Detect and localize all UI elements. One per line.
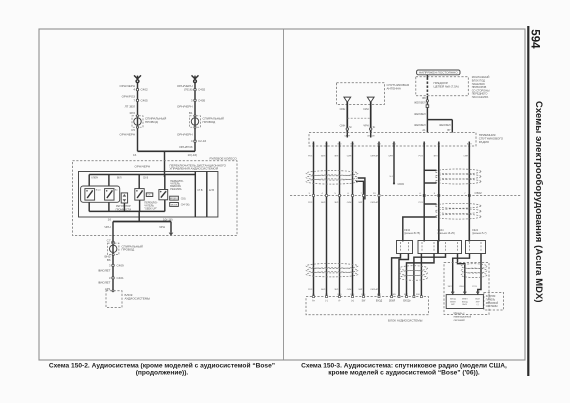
svg-text:С401: С401 bbox=[117, 276, 125, 280]
svg-text:В1: В1 bbox=[189, 111, 193, 115]
svg-text:СИН: СИН bbox=[347, 289, 352, 291]
svg-text:ПАНЕЛЬ: ПАНЕЛЬ bbox=[486, 298, 496, 301]
svg-text:СИСТЕМЫ: СИСТЕМЫ bbox=[486, 306, 498, 308]
svg-text:ФИОЛЕТ: ФИОЛЕТ bbox=[98, 269, 111, 273]
svg-text:Вниз: Вниз bbox=[96, 189, 101, 191]
svg-text:СИН: СИН bbox=[459, 286, 464, 288]
svg-text:ОРН/ЧЕРН: ОРН/ЧЕРН bbox=[177, 104, 193, 108]
svg-text:С502: С502 bbox=[475, 191, 483, 195]
svg-text:(7616): (7616) bbox=[184, 88, 193, 92]
svg-text:9с: 9с bbox=[373, 126, 376, 129]
svg-text:СИН: СИН bbox=[347, 202, 352, 204]
svg-text:ЧРН: ЧРН bbox=[363, 124, 368, 128]
svg-text:В8: В8 bbox=[422, 96, 426, 100]
svg-text:7: 7 bbox=[133, 98, 135, 102]
svg-text:В7: В7 bbox=[447, 128, 451, 132]
svg-text:ВЫХ: ВЫХ bbox=[475, 299, 480, 301]
svg-text:4: 4 bbox=[133, 88, 135, 92]
svg-text:6: 6 bbox=[348, 193, 350, 195]
svg-text:ЛТ ЗЕЛ: ЛТ ЗЕЛ bbox=[125, 104, 135, 108]
svg-text:БЕЛ: БЕЛ bbox=[321, 202, 326, 204]
svg-text:3: 3 bbox=[309, 193, 311, 195]
svg-text:ЗЕЛ: ЗЕЛ bbox=[433, 156, 438, 158]
svg-text:ВХОД: ВХОД bbox=[462, 301, 468, 303]
svg-text:С402: С402 bbox=[141, 88, 149, 92]
svg-text:5с: 5с bbox=[349, 126, 352, 129]
svg-text:ОРН/ЧЕРН: ОРН/ЧЕРН bbox=[119, 133, 135, 137]
svg-text:ЗЕМЛ: ЗЕМЛ bbox=[389, 301, 396, 303]
svg-text:АУДИО: АУДИО bbox=[170, 197, 178, 200]
svg-text:А1: А1 bbox=[422, 128, 426, 132]
svg-text:ЗЕМЛ: ЗЕМЛ bbox=[450, 301, 456, 303]
svg-text:АР1: АР1 bbox=[105, 287, 111, 291]
svg-text:С405: С405 bbox=[141, 98, 149, 102]
svg-text:ЖЕЛ/ЗЕЛ: ЖЕЛ/ЗЕЛ bbox=[439, 123, 451, 127]
svg-text:('03): ('03) bbox=[181, 197, 186, 200]
svg-text:ВХОД: ВХОД bbox=[450, 299, 456, 301]
svg-text:РОЗ: РОЗ bbox=[308, 156, 313, 158]
svg-text:РАДИО: РАДИО bbox=[479, 140, 490, 144]
svg-text:С405: С405 bbox=[198, 98, 206, 102]
svg-text:СИН: СИН bbox=[363, 107, 369, 111]
svg-text:кроме моделей с аудиосистемой: кроме моделей с аудиосистемой “Bose” ('0… bbox=[328, 369, 480, 377]
svg-text:РОЗ: РОЗ bbox=[472, 286, 477, 288]
svg-text:4: 4 bbox=[419, 193, 421, 195]
svg-text:ПРОВОД: ПРОВОД bbox=[203, 120, 216, 124]
svg-text:С409: С409 bbox=[117, 263, 125, 267]
svg-text:БЕЛ: БЕЛ bbox=[321, 156, 326, 158]
svg-text:ЧРН: ЧРН bbox=[104, 225, 110, 229]
svg-text:Схема 150-3. Аудиосистема: спу: Схема 150-3. Аудиосистема: спутниковое р… bbox=[301, 363, 507, 370]
svg-text:ЖЕЛ/ЗЕЛ: ЖЕЛ/ЗЕЛ bbox=[414, 101, 426, 105]
svg-text:ЧРН: ЧРН bbox=[389, 156, 394, 158]
svg-text:РЕЖИМА: РЕЖИМА bbox=[170, 188, 182, 191]
svg-text:('04-'06): ('04-'06) bbox=[181, 204, 190, 207]
svg-text:КЛЮЧ: КЛЮЧ bbox=[92, 177, 99, 179]
svg-text:А-: А- bbox=[338, 300, 341, 303]
svg-text:ПАССАЖИРА: ПАССАЖИРА bbox=[472, 95, 489, 99]
svg-text:В27: В27 bbox=[476, 292, 481, 294]
svg-text:ОРН/РОЗ: ОРН/РОЗ bbox=[179, 145, 193, 149]
svg-text:СК В: СК В bbox=[143, 177, 149, 179]
svg-text:РОЗ: РОЗ bbox=[419, 202, 424, 204]
svg-text:С5: С5 bbox=[131, 128, 135, 132]
svg-text:17 В: 17 В bbox=[197, 188, 203, 192]
svg-text:ЗЕЛ: ЗЕЛ bbox=[334, 202, 339, 204]
svg-text:СЕРЫЙ: СЕРЫЙ bbox=[370, 201, 378, 204]
svg-text:12 В: 12 В bbox=[209, 188, 215, 192]
svg-text:АНТЕННА: АНТЕННА bbox=[387, 87, 401, 91]
svg-text:В44: В44 bbox=[451, 292, 456, 294]
svg-text:3: 3 bbox=[109, 263, 111, 267]
svg-text:ВКЛ: ВКЛ bbox=[117, 177, 122, 179]
svg-text:ЭКР: ЭКР bbox=[476, 301, 481, 303]
svg-text:В10: В10 bbox=[416, 294, 421, 296]
svg-text:А+: А+ bbox=[312, 300, 316, 303]
svg-text:СЕРЫЙ: СЕРЫЙ bbox=[370, 288, 378, 291]
svg-text:ОРН/ЧЕРН: ОРН/ЧЕРН bbox=[177, 133, 193, 137]
svg-text:MODE: MODE bbox=[171, 205, 178, 207]
svg-text:С23: С23 bbox=[463, 292, 468, 294]
svg-text:РОЗ: РОЗ bbox=[308, 289, 313, 291]
svg-text:"SEEK UP": "SEEK UP" bbox=[144, 208, 157, 211]
svg-text:СИН: СИН bbox=[340, 124, 346, 128]
svg-text:СЕРЫЙ: СЕРЫЙ bbox=[370, 155, 378, 158]
svg-text:ЗЕЛ: ЗЕЛ bbox=[447, 286, 452, 288]
svg-text:РУЛЕВОЕ КОЛЕСО: РУЛЕВОЕ КОЛЕСО bbox=[210, 156, 238, 160]
svg-text:SW: SW bbox=[362, 301, 367, 303]
svg-text:ЗЕЛ: ЗЕЛ bbox=[334, 156, 339, 158]
svg-text:ЭКР: ЭКР bbox=[451, 304, 456, 306]
svg-text:16: 16 bbox=[108, 218, 112, 222]
svg-text:системой: системой bbox=[454, 319, 466, 322]
svg-text:G503: G503 bbox=[398, 182, 405, 186]
svg-text:(разъем 5-7): (разъем 5-7) bbox=[472, 232, 487, 235]
svg-text:ЗВУКОВОЙ: ЗВУКОВОЙ bbox=[486, 302, 499, 305]
svg-text:10(-16): 10(-16) bbox=[163, 218, 173, 222]
svg-text:СИН: СИН bbox=[463, 156, 468, 158]
svg-text:ЖЕЛ/ЗЕЛ: ЖЕЛ/ЗЕЛ bbox=[414, 112, 426, 116]
svg-text:ОРН/ЧЕРН: ОРН/ЧЕРН bbox=[134, 164, 150, 168]
svg-text:ВЫХ: ВЫХ bbox=[462, 304, 467, 306]
svg-text:СИН: СИН bbox=[340, 107, 346, 111]
svg-text:ЖЕЛ/ЗЕЛ: ЖЕЛ/ЗЕЛ bbox=[414, 123, 426, 127]
svg-text:594: 594 bbox=[528, 29, 540, 49]
svg-text:АУДИОСИСТЕМЫ: АУДИОСИСТЕМЫ bbox=[125, 297, 151, 301]
svg-text:Вв: Вв bbox=[115, 189, 118, 191]
svg-text:Схемы электрооборудования (Acu: Схемы электрооборудования (Acura MDX) bbox=[534, 101, 545, 303]
svg-text:(разъем 16-25): (разъем 16-25) bbox=[438, 232, 455, 235]
svg-text:4: 4 bbox=[191, 139, 193, 143]
svg-text:ПРОВОД: ПРОВОД bbox=[145, 120, 158, 124]
svg-text:ВХОД: ВХОД bbox=[376, 301, 383, 303]
svg-text:ФИОЛЕТ: ФИОЛЕТ bbox=[98, 280, 111, 284]
svg-text:3: 3 bbox=[109, 276, 111, 280]
svg-text:С2-16: С2-16 bbox=[198, 139, 207, 143]
svg-text:ЭКР: ЭКР bbox=[358, 289, 363, 291]
svg-text:ЗЕЛ: ЗЕЛ bbox=[334, 289, 339, 291]
svg-text:В6: В6 bbox=[107, 258, 111, 262]
svg-text:ЗЕМЛ: ЗЕМЛ bbox=[462, 299, 468, 301]
svg-text:БЕЛ: БЕЛ bbox=[321, 289, 326, 291]
svg-text:3: 3 bbox=[191, 98, 193, 102]
svg-text:(разъем В-75): (разъем В-75) bbox=[404, 232, 420, 235]
svg-text:С402: С402 bbox=[198, 88, 206, 92]
svg-text:ВХОД+: ВХОД+ bbox=[403, 301, 411, 303]
svg-text:10(-16): 10(-16) bbox=[188, 153, 198, 157]
svg-text:КР2: КР2 bbox=[130, 111, 136, 115]
svg-text:БЛОК АУДИОСИСТЕМЫ: БЛОК АУДИОСИСТЕМЫ bbox=[388, 318, 423, 322]
svg-text:5: 5 bbox=[335, 193, 337, 195]
svg-text:4: 4 bbox=[322, 193, 324, 195]
svg-text:ЭКР: ЭКР bbox=[358, 202, 363, 204]
svg-text:(+): (+) bbox=[351, 301, 354, 303]
svg-text:23: 23 bbox=[373, 193, 376, 195]
svg-text:Схема 150-2. Аудиосистема (кро: Схема 150-2. Аудиосистема (кроме моделей… bbox=[49, 362, 275, 370]
svg-text:ПРОВОД: ПРОВОД bbox=[122, 248, 135, 252]
svg-text:НАПРЯЖЕН ПОСТОЯННО: НАПРЯЖЕН ПОСТОЯННО bbox=[419, 71, 458, 75]
svg-text:ЧРН: ЧРН bbox=[159, 225, 165, 229]
svg-text:7: 7 bbox=[464, 193, 466, 195]
svg-text:ЦЕПЕЙ №8 (7,5А): ЦЕПЕЙ №8 (7,5А) bbox=[434, 85, 459, 89]
svg-text:РОЗ: РОЗ bbox=[308, 202, 313, 204]
svg-text:Ч-1: Ч-1 bbox=[390, 176, 394, 178]
svg-text:8: 8 bbox=[434, 193, 436, 195]
svg-text:16: 16 bbox=[133, 153, 137, 157]
svg-text:(-): (-) bbox=[477, 304, 479, 306]
svg-text:(продолжение)).: (продолжение)). bbox=[136, 370, 189, 377]
svg-text:СИН: СИН bbox=[347, 156, 352, 158]
svg-text:(-): (-) bbox=[325, 301, 328, 303]
svg-text:УПРАВЛЕНИЯ АУДИОСИСТЕМОЙ: УПРАВЛЕНИЯ АУДИОСИСТЕМОЙ bbox=[170, 167, 219, 171]
svg-text:РОЗ: РОЗ bbox=[419, 156, 424, 158]
svg-text:С7: С7 bbox=[107, 238, 111, 242]
svg-text:ЗАДНЯЯ: ЗАДНЯЯ bbox=[486, 295, 496, 298]
